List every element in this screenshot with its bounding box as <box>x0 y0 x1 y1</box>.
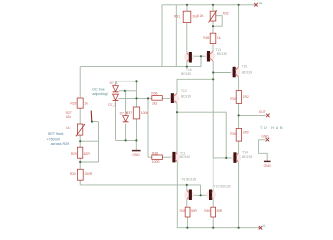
wire D9 bottom lead <box>125 124 127 141</box>
svg-text:10k: 10k <box>66 115 72 119</box>
node OUT <box>238 114 240 116</box>
wire elbow to mirror bases <box>200 56 202 66</box>
diode D8 <box>113 94 119 100</box>
svg-text:R26: R26 <box>203 36 209 40</box>
node T16 collector <box>186 66 188 68</box>
wire bottom mirror bases <box>192 194 209 196</box>
net flag V+ <box>254 3 258 7</box>
resistor R28 <box>77 98 83 108</box>
node mirror bases <box>200 55 202 57</box>
resistor R30 <box>77 169 83 180</box>
wire T16 collector lead <box>186 62 188 67</box>
wire R27 wiper tap <box>92 121 99 123</box>
ground symbol output <box>264 161 272 167</box>
wire R32 pot bottom lead <box>212 21 214 33</box>
wire long bias run <box>80 66 201 68</box>
resistor R31 <box>183 11 191 22</box>
svg-text:R29: R29 <box>71 152 77 156</box>
wire V+ top rail <box>162 4 256 6</box>
wire bias chain segment 3 <box>79 135 81 147</box>
node R32 top <box>212 4 214 6</box>
node input lower branch <box>147 97 149 99</box>
wire R33 to OUT node <box>238 103 240 128</box>
wire R32 pot top lead <box>212 5 214 11</box>
wire T12 collector branch <box>177 79 213 93</box>
svg-text:BD139: BD139 <box>217 52 227 56</box>
svg-text:R32: R32 <box>223 11 229 15</box>
svg-text:82R: 82R <box>84 152 91 156</box>
svg-text:BD139: BD139 <box>242 155 252 159</box>
svg-text:1k: 1k <box>217 36 221 40</box>
svg-text:2R2: 2R2 <box>243 130 249 134</box>
diode D9 <box>123 116 129 122</box>
wire diode mid tap <box>118 90 136 92</box>
node input R37 <box>135 97 137 99</box>
svg-text:R38: R38 <box>152 151 158 155</box>
svg-text:D7_3: D7_3 <box>120 111 128 115</box>
wire R26 bottom lead to T13 <box>212 44 214 52</box>
resistor R37 <box>133 107 139 119</box>
node R35 to rail <box>186 227 188 229</box>
node D9 tap <box>124 90 126 92</box>
wire wiper loop vertical <box>98 122 100 162</box>
wire diode bottom run <box>116 139 137 141</box>
svg-text:BD139: BD139 <box>181 95 191 99</box>
svg-text:T14: T14 <box>242 150 248 154</box>
resistor R33 <box>236 91 241 104</box>
wire V- bottom rail <box>177 227 260 229</box>
wire T15 base <box>213 72 232 74</box>
wire OUT branch <box>239 114 266 116</box>
svg-text:R40: R40 <box>204 209 210 213</box>
node D9 bottom <box>125 139 127 141</box>
wire node rail to T10 collector <box>212 158 214 190</box>
svg-text:R34: R34 <box>230 132 236 136</box>
wire D9 top lead <box>125 91 127 116</box>
resistor R34 <box>236 128 241 141</box>
resistor R32 trimmer <box>209 10 217 22</box>
transistor T14 <box>232 152 242 163</box>
wire bias chain segment 1 <box>79 67 81 98</box>
wire R40 bottom lead <box>212 217 214 228</box>
ground symbol input <box>132 151 141 157</box>
svg-text:2.2k: 2.2k <box>197 14 204 18</box>
wire T15 emitter to R33 <box>238 77 240 91</box>
resistor R38 <box>152 155 163 159</box>
svg-text:R30: R30 <box>70 172 76 176</box>
wire T12 base <box>162 97 171 99</box>
wire R32 wiper loop <box>213 16 222 27</box>
svg-text:BD139: BD139 <box>242 70 252 74</box>
wire top mirror bases <box>192 55 207 57</box>
resistor R36 <box>152 96 163 101</box>
svg-text:T9 BD139: T9 BD139 <box>181 178 196 182</box>
svg-text:T10 BD139: T10 BD139 <box>214 184 231 188</box>
node pot bottom <box>79 140 81 142</box>
svg-text:GND: GND <box>132 153 140 157</box>
svg-text:R31: R31 <box>174 15 180 19</box>
svg-text:D7_1: D7_1 <box>110 81 118 85</box>
node ground stem top <box>135 139 137 141</box>
wire T9 collector lead <box>186 185 188 190</box>
node T9 collector <box>186 184 188 186</box>
wire T12 emitter to T11 collector <box>176 103 178 152</box>
wire T11 base <box>162 156 172 158</box>
wire R37 top lead <box>136 81 138 107</box>
svg-text:V+: V+ <box>259 1 263 5</box>
svg-text:D7_2: D7_2 <box>108 103 116 107</box>
node diode top <box>135 80 137 82</box>
wire R38 left lead <box>148 156 152 158</box>
svg-text:SET 9mA: SET 9mA <box>48 132 64 136</box>
transistor T11 <box>171 152 181 163</box>
svg-text:R28: R28 <box>70 102 76 106</box>
transistor T15 <box>231 67 241 78</box>
wire T14 base <box>213 157 233 159</box>
wire ground stem <box>135 140 137 150</box>
wire bias chain segment 2 <box>79 108 81 124</box>
svg-text:39R: 39R <box>216 209 223 213</box>
wire bias chain segment 4 <box>79 158 81 169</box>
svg-text:39R: 39R <box>191 209 198 213</box>
wire V+ right rail <box>238 5 240 67</box>
resistor R26 <box>210 33 216 43</box>
svg-text:2k2: 2k2 <box>152 102 157 106</box>
svg-text:100k: 100k <box>141 111 149 115</box>
wire R35 bottom lead <box>186 217 188 228</box>
svg-text:150R: 150R <box>84 172 93 176</box>
svg-text:T12: T12 <box>181 89 187 93</box>
wire T13 collector down node rail <box>212 61 214 158</box>
svg-text:BD139: BD139 <box>181 72 191 76</box>
svg-text:across R29: across R29 <box>51 142 70 146</box>
wire diode top run <box>116 80 137 82</box>
transistor T12 <box>170 93 180 103</box>
net flag V- <box>259 226 263 230</box>
wire GND flag to ground symbol <box>259 140 268 161</box>
transistor T9 <box>184 190 194 201</box>
wire left rail <box>161 5 163 67</box>
node R29 bottom <box>79 161 81 163</box>
node T15 base tap <box>212 71 214 73</box>
transistor T16 <box>184 52 194 63</box>
net flag OUT <box>266 114 270 118</box>
svg-text:1k: 1k <box>66 126 70 130</box>
wire elbow to bottom mirror bases <box>200 185 202 195</box>
node pot wiper join <box>212 25 214 27</box>
node right rail top <box>238 4 240 6</box>
svg-text:T15: T15 <box>242 64 248 68</box>
wire emitter branch right <box>177 112 226 158</box>
svg-text:2R2: 2R2 <box>243 95 249 99</box>
transistor T13 <box>205 51 215 62</box>
node bottom mirror bases <box>200 194 202 196</box>
wire input node run <box>118 97 151 99</box>
wire T10 emitter lead <box>212 200 214 208</box>
node emitter branch <box>176 111 178 113</box>
trimmer R27 <box>76 111 92 137</box>
wire bias chain segment 5 <box>79 180 81 185</box>
wire bias feed run A <box>80 184 200 186</box>
wire OUT node to R34 <box>238 141 240 153</box>
resistor R40 <box>211 207 216 217</box>
svg-text:1k: 1k <box>84 102 88 106</box>
node right rail bottom <box>238 227 240 229</box>
node R31 top <box>186 4 188 6</box>
wire mid rail <box>175 5 177 67</box>
wire R31 top lead <box>186 5 188 11</box>
net flag GND <box>266 138 270 142</box>
wire T9 emitter lead <box>186 200 188 208</box>
svg-text:OUT: OUT <box>259 110 266 114</box>
svg-text:R33: R33 <box>230 97 236 101</box>
svg-text:R35: R35 <box>180 209 186 213</box>
resistor R29 <box>77 147 82 158</box>
wire R29 bottom tap <box>80 161 98 163</box>
wire D8 bottom lead <box>115 101 117 140</box>
wire T11 emitter to V- rail <box>176 162 178 228</box>
svg-text:adjusting!: adjusting! <box>92 92 107 96</box>
svg-text:GND: GND <box>261 134 269 138</box>
svg-text:GND: GND <box>264 164 272 168</box>
wire input to lower driver <box>147 98 149 157</box>
wire R31 to T16 emitter <box>186 23 188 53</box>
node R40 to rail <box>212 227 214 229</box>
diode D7 <box>113 86 119 92</box>
svg-text:BD140: BD140 <box>180 155 190 159</box>
svg-text:TO HUB: TO HUB <box>260 126 284 130</box>
resistor R35 <box>185 207 190 217</box>
svg-text:+750mV: +750mV <box>46 138 60 142</box>
node T14 base branch <box>225 157 227 159</box>
svg-text:DC true: DC true <box>92 88 104 92</box>
wire T14 emitter to V- rail <box>238 162 240 227</box>
node wiper bottom <box>91 121 93 123</box>
transistor T10 <box>206 190 216 201</box>
wire D7 top stub <box>115 81 117 85</box>
svg-text:100R: 100R <box>152 160 161 164</box>
svg-text:R36: R36 <box>151 92 157 96</box>
wire pot bottom tap <box>80 140 98 142</box>
node T12 collector tap <box>212 78 214 80</box>
wire R37 bottom lead <box>136 119 138 140</box>
